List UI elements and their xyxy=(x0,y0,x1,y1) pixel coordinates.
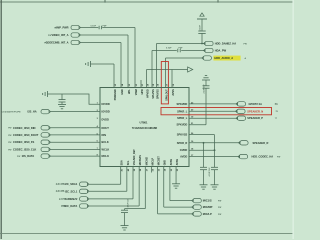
node AMP_PWR flag xyxy=(71,25,79,29)
svg-text:VOL/MIC_DET: VOL/MIC_DET xyxy=(133,149,136,166)
wire I2C_SCL1 xyxy=(89,190,127,192)
wire SPKVDD pin23 to GPIOT flag xyxy=(189,103,237,105)
svg-text:HPVDD: HPVDD xyxy=(147,89,150,98)
node CODEC_I2S0_DOUT flag xyxy=(41,133,49,137)
ground under C7002 xyxy=(58,103,66,105)
top pin stub xyxy=(140,80,142,88)
node HDD_CODEC_HA flag xyxy=(239,154,247,158)
svg-text:HDD_CODEC_HA: HDD_CODEC_HA xyxy=(252,155,274,159)
svg-text:PA: PA xyxy=(275,103,278,106)
svg-text:PW: PW xyxy=(218,214,221,216)
svg-text:GPIOT2:1A: GPIOT2:1A xyxy=(249,102,263,106)
svg-text:SPKR_L: SPKR_L xyxy=(177,109,188,113)
svg-text:DIN: DIN xyxy=(102,133,107,137)
capacitor C7007 4.7UF 16V xyxy=(203,143,205,167)
svg-text:SPKVDD: SPKVDD xyxy=(176,123,187,127)
svg-text:I2S_HA: I2S_HA xyxy=(28,110,37,114)
svg-text:SPLVSS: SPLVSS xyxy=(152,89,155,99)
svg-text:CODEC_I2S0_FS: CODEC_I2S0_FS xyxy=(13,140,35,144)
svg-text:MCLK: MCLK xyxy=(102,154,110,158)
svg-text:MIC/LP: MIC/LP xyxy=(203,212,212,216)
svg-text:PB: PB xyxy=(61,205,65,208)
svg-text:2J/4 PB: 2J/4 PB xyxy=(56,190,65,193)
ground (lying, left) xyxy=(47,91,49,97)
wire CODEC_I2S0_FS xyxy=(51,141,100,143)
wire to IOVDD pin1 xyxy=(48,94,101,104)
svg-text:MIC/MP: MIC/MP xyxy=(203,205,213,209)
svg-text:C1/2/3/4/7/8 PC/PE: C1/2/3/4/7/8 PC/PE xyxy=(2,111,22,114)
svg-text:IOVDD: IOVDD xyxy=(102,102,110,106)
wire SPEAKER_N (highlighted) xyxy=(189,110,237,112)
wire I2C_SDA1 xyxy=(89,183,121,185)
op-amp/codec U7801 body xyxy=(100,88,189,167)
svg-text:2.2UF 16V: 2.2UF 16V xyxy=(203,84,205,94)
wire HDD_DANBZ_HA xyxy=(157,43,205,45)
svg-text:AVSS: AVSS xyxy=(176,159,179,166)
node I2C_SCL1 flag xyxy=(80,189,88,193)
svg-text:GND: GND xyxy=(164,160,167,166)
node MIC_DATA flag xyxy=(80,204,88,208)
svg-text:MIC1/S: MIC1/S xyxy=(203,199,212,203)
node CODEC_I2S0_DIN flag xyxy=(41,126,49,130)
svg-text:SPEAKER_N: SPEAKER_N xyxy=(247,109,263,113)
svg-text:HPR: HPR xyxy=(141,89,144,94)
power symbol VREF (top) xyxy=(200,13,204,16)
wire I2S_HA xyxy=(51,111,100,113)
ground (triangle) xyxy=(188,67,193,72)
wire I2S_DATA xyxy=(51,155,100,157)
wire MIC_DATA xyxy=(89,205,139,207)
capacitor C7001 0.1UF (series) xyxy=(98,26,100,30)
svg-text:IOVDD: IOVDD xyxy=(102,110,110,114)
svg-text:AUDENZ#: AUDENZ# xyxy=(65,197,78,201)
svg-text:AVSS: AVSS xyxy=(170,159,173,166)
node AUDENZ# flag xyxy=(80,197,88,201)
svg-text:SDA: SDA xyxy=(121,160,124,165)
node MIC/LP flag xyxy=(193,212,201,216)
wire AMP_PWR to U7801 xyxy=(81,27,99,29)
wire HDD_AUDIO (highlighted) xyxy=(166,57,203,59)
svg-text:CODEC_I2S0_DIN: CODEC_I2S0_DIN xyxy=(13,126,36,130)
svg-text:MICDET: MICDET xyxy=(158,156,161,166)
node SPEAKER_P flag xyxy=(237,116,245,120)
svg-text:CODEC/MB_INT_A: CODEC/MB_INT_A xyxy=(45,41,68,45)
svg-text:0.1UF: 0.1UF xyxy=(166,48,172,50)
node SPEAKER_N flag xyxy=(237,109,245,113)
wire CODEC/MB_INT_A to U7801 xyxy=(81,42,121,44)
node CODEC_I2S0_CLK flag xyxy=(41,147,49,151)
svg-text:OVDD: OVDD xyxy=(180,148,188,152)
svg-text:PW: PW xyxy=(218,207,221,209)
capacitor C7004 0.1UF (series) xyxy=(177,49,179,53)
svg-text:SPEAKER_P: SPEAKER_P xyxy=(247,116,263,120)
svg-text:I2C_SCL1: I2C_SCL1 xyxy=(65,189,78,193)
svg-text:CODEC_I2S0_CLK: CODEC_I2S0_CLK xyxy=(13,147,36,151)
svg-text:2J PB: 2J PB xyxy=(59,198,66,201)
node MIC/MP flag xyxy=(193,205,201,209)
wire HDA_PW xyxy=(152,50,177,52)
wire MIC1/S xyxy=(169,167,171,201)
capacitor C7005 2.2UF 16V xyxy=(203,85,210,87)
svg-text:I2C_SDA1: I2C_SDA1 xyxy=(65,182,78,186)
highlight box (horizontal, SPEAKER_N net) xyxy=(161,108,272,115)
svg-text:2J/4 PB: 2J/4 PB xyxy=(56,183,65,186)
node SPEAKER_R flag xyxy=(240,141,248,145)
svg-text:WCLK: WCLK xyxy=(102,147,110,151)
node GPIOT2 flag xyxy=(237,102,245,106)
capacitor C7003 2.2UF xyxy=(201,19,203,31)
svg-text:BCLK: BCLK xyxy=(102,140,109,144)
svg-text:VINM: VINM xyxy=(135,89,138,95)
junction OVDD xyxy=(214,149,216,151)
junction xyxy=(201,43,203,45)
wire CODEC_I2S0_DIN xyxy=(51,127,100,129)
wire AVSS to ground xyxy=(147,69,188,71)
svg-text:AVDD: AVDD xyxy=(180,155,187,159)
svg-text:0.1UF: 0.1UF xyxy=(91,25,97,27)
stub pin 36 xyxy=(150,167,152,173)
ground above C7005 xyxy=(202,79,210,81)
svg-text:PW: PW xyxy=(44,42,47,44)
svg-text:PWRGND: PWRGND xyxy=(114,89,117,100)
svg-text:PW: PW xyxy=(218,201,221,203)
svg-text:AVSS: AVSS xyxy=(172,89,175,96)
ground at AGND pin xyxy=(175,167,177,184)
node MIC1/S flag xyxy=(193,198,201,202)
svg-text:SPKVDD: SPKVDD xyxy=(176,102,187,106)
node HDD_DANBZ_HA flag xyxy=(205,41,213,45)
node I2S_HA flag xyxy=(41,109,49,113)
svg-text:CODEC_I2S0_DOUT: CODEC_I2S0_DOUT xyxy=(13,133,39,137)
svg-text:MICLP: MICLP xyxy=(151,157,154,165)
svg-text:SPKVSS: SPKVSS xyxy=(157,89,160,99)
node I2C_SDA1 flag xyxy=(80,182,88,186)
sheet right border xyxy=(292,0,294,239)
highlight box (vertical, pin 28) xyxy=(161,62,168,104)
node HDA_PW flag xyxy=(205,48,213,52)
svg-text:MIC_DATA: MIC_DATA xyxy=(64,204,77,208)
svg-text:PW: PW xyxy=(8,149,11,151)
wire AUDENZ# xyxy=(89,198,133,200)
svg-text:AMP_PWR: AMP_PWR xyxy=(55,26,68,30)
wire VIDEO_INT_A to U7801 xyxy=(81,34,128,36)
wire SPKR_R to SPEAKER_R flag xyxy=(189,142,240,144)
svg-text:I2S_DATA: I2S_DATA xyxy=(22,154,34,158)
svg-text:SPKR_L: SPKR_L xyxy=(177,116,188,120)
svg-text:MICIN2: MICIN2 xyxy=(145,157,148,166)
svg-text:PW: PW xyxy=(8,128,11,130)
wire ground to pin xyxy=(91,63,115,65)
svg-text:HDD_DANBZ_HA: HDD_DANBZ_HA xyxy=(215,42,236,46)
wire MIC/LP xyxy=(157,167,159,214)
node HDD_AUDIO flag (yellow highlight) xyxy=(203,56,211,60)
svg-text:2.2UF: 2.2UF xyxy=(199,24,201,30)
sheet top border xyxy=(0,1,294,3)
svg-text:SPEAKER_R: SPEAKER_R xyxy=(253,141,269,145)
svg-text:GND: GND xyxy=(121,89,124,95)
wire SPKVSS pin26 down xyxy=(189,134,215,136)
node VIDEO_INT_A flag xyxy=(71,33,79,37)
svg-text:HDA_PW: HDA_PW xyxy=(215,49,227,53)
wire MIC/MP xyxy=(163,167,165,208)
capacitor C7002 (to ground) xyxy=(61,94,63,99)
wire OVDD pin18 xyxy=(189,149,215,151)
svg-text:PW: PW xyxy=(17,156,20,158)
svg-text:10UF 6.3V: 10UF 6.3V xyxy=(128,198,130,208)
wire CODEC_I2S0_CLK xyxy=(51,148,100,150)
node I2S_DATA flag xyxy=(41,154,49,158)
ground under C7008 xyxy=(121,225,129,227)
node CODEC/MB_INT_A flag xyxy=(71,40,79,44)
svg-text:PW: PW xyxy=(244,43,247,45)
svg-text:DOUT: DOUT xyxy=(102,126,110,130)
capacitor C7008 10UF 6.3V xyxy=(124,209,126,210)
svg-text:PW: PW xyxy=(48,35,51,37)
svg-text:SPKVSS: SPKVSS xyxy=(177,133,188,137)
svg-text:PW: PW xyxy=(8,135,11,137)
capacitor C7006 4.7UF 16V xyxy=(211,166,218,168)
svg-text:DVDD: DVDD xyxy=(102,118,109,122)
svg-text:U7801: U7801 xyxy=(140,120,148,124)
svg-text:PW: PW xyxy=(8,142,11,144)
wire AVDD to HDD_CODEC_HA xyxy=(189,156,239,158)
wire CODEC_I2S0_DOUT xyxy=(51,134,100,136)
ground under C7007 xyxy=(200,184,208,186)
svg-text:SPKR_R: SPKR_R xyxy=(177,141,188,145)
sheet left border xyxy=(0,0,2,239)
sheet bottom border xyxy=(0,233,294,235)
svg-text:TLV320ADC3101IRHBR: TLV320ADC3101IRHBR xyxy=(132,127,158,130)
border tick 2 xyxy=(217,0,219,3)
junction SPEAKER_R xyxy=(203,142,205,144)
svg-text:MICBIAS: MICBIAS xyxy=(139,155,142,165)
svg-text:PW: PW xyxy=(277,157,280,159)
svg-text:HDD_AUDIO_A: HDD_AUDIO_A xyxy=(214,56,233,60)
svg-text:HPL: HPL xyxy=(128,89,131,94)
node CODEC_I2S0_FS flag xyxy=(41,140,49,144)
border tick 1 xyxy=(104,0,106,3)
wire MCLK pin to cap xyxy=(144,167,146,209)
svg-text:SCL: SCL xyxy=(127,160,130,165)
svg-text:4.7UF 16V: 4.7UF 16V xyxy=(208,167,211,177)
ground under C7006 xyxy=(211,184,219,186)
ground (lying, near top of U7801) xyxy=(90,61,92,67)
wire SPEAKER_P xyxy=(189,117,237,119)
wire SPKVDD pin21 to cap xyxy=(189,124,206,126)
svg-text:VIDEO_INT_A: VIDEO_INT_A xyxy=(51,33,68,37)
svg-text:SPKLOUT: SPKLOUT xyxy=(166,89,169,101)
